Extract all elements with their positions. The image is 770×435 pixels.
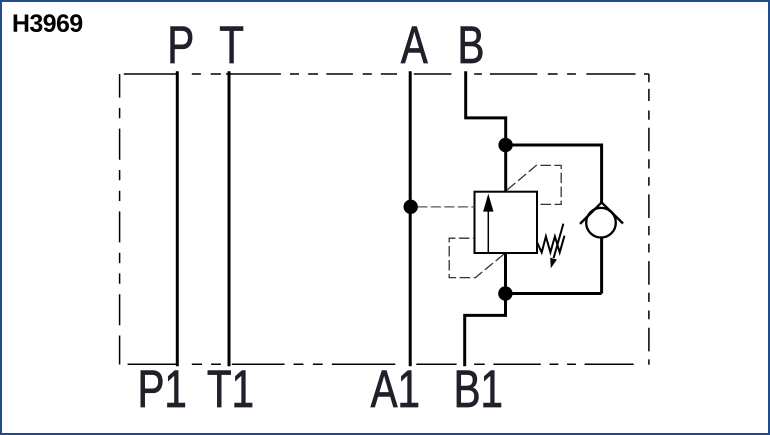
subplate boundary right edge (dashed) [648,74,650,365]
pilot line from node A to valve (dashed) [417,206,474,208]
port label A [401,27,428,63]
relief valve flow arrow (inside square) [487,209,489,252]
wire from top node to check valve branch [506,145,602,203]
pilot drain loop top right (dashed) [507,165,561,204]
check valve seat (V) [580,202,623,224]
pilot drain loop bottom left (dashed) [449,238,504,277]
wire valve bottom to bottom node [504,253,507,294]
port label P [171,27,192,63]
wire check valve down to bottom rail [600,238,603,294]
relief valve spring [537,236,565,253]
junction node on B branch (bottom) [498,286,512,300]
port label T [220,27,243,63]
port label B1 [457,371,501,407]
port label P1 [141,371,185,407]
junction node on B branch (top) [498,138,512,152]
drawing number H3969 [14,14,83,32]
subplate boundary left edge (dashed) [119,74,121,365]
check valve ball (circle) [586,208,616,238]
pilot node on line A [404,200,418,214]
port line P (P to P1) [176,71,179,366]
wire bottom rail to check valve [506,292,602,295]
relief valve body (square) [475,192,538,253]
subplate boundary bottom edge (dashed) [128,363,634,365]
wire B down with jog to valve axis [466,71,506,192]
port line A (A to A1) [409,71,412,366]
port label A1 [371,371,418,407]
port line T (T to T1) [228,71,231,366]
wire B1 up with jog to bottom node [465,293,506,366]
port label B [461,27,482,63]
subplate boundary top edge (dashed) [124,73,649,75]
spring adjustment arrow [554,224,564,258]
port label T1 [208,371,252,407]
